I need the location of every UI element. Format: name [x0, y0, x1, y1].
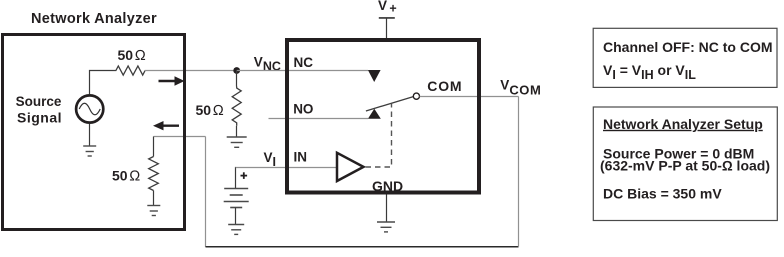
svg-text:NO: NO [293, 102, 313, 117]
svg-text:Signal: Signal [17, 109, 62, 125]
node VNC junction dot [233, 67, 240, 74]
svg-text:IN: IN [294, 150, 308, 165]
wire bottom rail [206, 246, 519, 248]
resistor 50ohm series (horizontal) [114, 66, 146, 75]
wire riser left [205, 137, 207, 247]
dashed control line [366, 104, 392, 168]
wire resistor to ground [236, 126, 238, 137]
svg-text:(632-mV P-P at 50-Ω load): (632-mV P-P at 50-Ω load) [600, 158, 770, 174]
wire source top to resistor [90, 71, 114, 95]
wire riser VCOM [518, 97, 520, 247]
resistor 50ohm termination at NC node (vertical) [232, 87, 241, 126]
wire return resistor top [153, 137, 155, 157]
wire NO pin to switch contact [285, 118, 368, 120]
ground (IC GND) [377, 222, 395, 232]
svg-text:Channel OFF: NC to COM: Channel OFF: NC to COM [603, 39, 773, 55]
ground (return resistor) [147, 206, 160, 216]
svg-text:Source: Source [16, 94, 62, 109]
svg-text:50Ω: 50Ω [196, 102, 224, 119]
resistor 50ohm return (vertical, inside analyzer) [149, 157, 159, 191]
IC box outline [287, 40, 479, 193]
svg-text:Network Analyzer Setup: Network Analyzer Setup [603, 116, 763, 132]
wire COM to VCOM [420, 96, 519, 98]
svg-text:50Ω: 50Ω [118, 47, 146, 64]
note box channel off [593, 28, 777, 87]
wire resistor to node VNC [145, 70, 237, 72]
svg-text:NC: NC [294, 55, 314, 70]
wire NO stub outside [269, 118, 286, 120]
battery DC bias source [224, 189, 249, 208]
wire battery to IN pin [235, 167, 237, 188]
wire GND to ground [386, 195, 388, 223]
battery plus sign [241, 172, 248, 179]
note box analyzer setup [593, 107, 777, 221]
wire IN pin to buffer [285, 167, 337, 169]
switch pivot circle COM [413, 93, 419, 99]
svg-text:COM: COM [427, 78, 462, 94]
supply rail V+ bar [379, 17, 395, 19]
AC source sine wave [79, 103, 100, 115]
wire NC pin to switch contact [285, 70, 368, 72]
wire source bottom to ground [89, 124, 91, 146]
svg-text:Network Analyzer: Network Analyzer [31, 11, 157, 27]
wire node VNC down to resistor [236, 71, 238, 87]
arrow right (forward signal) [159, 80, 177, 82]
svg-text:DC Bias = 350 mV: DC Bias = 350 mV [603, 186, 722, 202]
wire node VNC to IC NC pin [237, 70, 285, 72]
switch NC contact triangle [368, 70, 381, 82]
ground (battery) [228, 225, 244, 235]
arrow left (return signal) [162, 124, 179, 126]
ground (NC termination) [227, 137, 247, 147]
switch NO contact triangle [368, 109, 381, 119]
wire return path horizontal [154, 136, 206, 138]
ground (source signal) [83, 146, 96, 156]
AC source circle [76, 95, 103, 122]
switch lever [366, 97, 413, 111]
svg-text:50Ω: 50Ω [112, 168, 140, 185]
wire return resistor to ground [153, 191, 155, 206]
enclosure box Network Analyzer [3, 35, 185, 230]
buffer driver triangle [337, 153, 364, 181]
wire battery to ground [235, 208, 237, 225]
wire V+ to IC [386, 18, 388, 38]
